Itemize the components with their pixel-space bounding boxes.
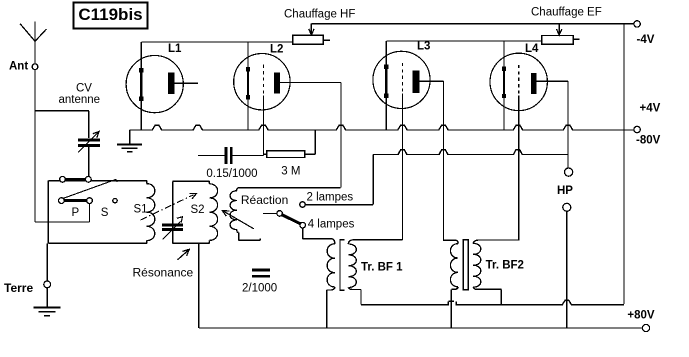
svg-text:3 M: 3 M	[281, 166, 300, 178]
svg-text:Réaction: Réaction	[241, 193, 288, 207]
svg-text:L4: L4	[525, 43, 539, 55]
svg-text:P: P	[72, 207, 80, 219]
svg-text:Ant: Ant	[9, 61, 28, 73]
svg-text:0.15/1000: 0.15/1000	[206, 168, 257, 180]
svg-text:2 lampes: 2 lampes	[307, 192, 354, 204]
svg-text:S2: S2	[191, 204, 205, 216]
svg-text:L1: L1	[168, 43, 182, 55]
svg-text:2/1000: 2/1000	[242, 283, 277, 295]
svg-text:S1: S1	[134, 204, 148, 216]
svg-text:Tr. BF 1: Tr. BF 1	[361, 262, 403, 274]
svg-text:+4V: +4V	[640, 103, 661, 115]
svg-text:CV: CV	[76, 83, 92, 95]
svg-text:Tr. BF2: Tr. BF2	[486, 260, 524, 272]
svg-text:antenne: antenne	[59, 94, 101, 106]
svg-text:L3: L3	[417, 41, 430, 53]
svg-text:4 lampes: 4 lampes	[308, 219, 355, 231]
svg-text:L2: L2	[270, 44, 283, 56]
svg-text:S: S	[101, 207, 109, 219]
svg-text:-80V: -80V	[636, 135, 661, 147]
svg-text:Terre: Terre	[4, 281, 33, 295]
svg-text:Chauffage EF: Chauffage EF	[531, 6, 602, 18]
svg-text:-4V: -4V	[637, 34, 655, 46]
svg-text:HP: HP	[557, 185, 573, 197]
svg-text:C119bis: C119bis	[78, 5, 142, 24]
svg-text:Chauffage HF: Chauffage HF	[284, 9, 355, 21]
svg-text:+80V: +80V	[627, 310, 655, 322]
svg-text:Résonance: Résonance	[133, 266, 194, 280]
